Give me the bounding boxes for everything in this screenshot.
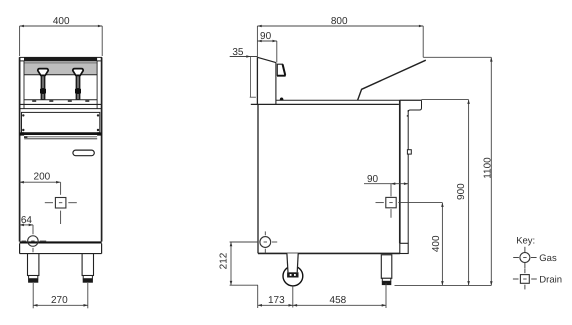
svg-text:1100: 1100 xyxy=(483,157,494,179)
svg-text:Gas: Gas xyxy=(539,253,557,264)
svg-text:270: 270 xyxy=(51,295,68,306)
svg-text:200: 200 xyxy=(34,172,51,183)
svg-text:90: 90 xyxy=(260,31,272,42)
svg-text:800: 800 xyxy=(331,16,348,27)
svg-text:173: 173 xyxy=(268,295,285,306)
svg-text:Drain: Drain xyxy=(539,274,562,285)
svg-text:900: 900 xyxy=(456,183,467,200)
svg-text:64: 64 xyxy=(21,215,33,226)
svg-text:400: 400 xyxy=(431,235,442,252)
svg-text:90: 90 xyxy=(367,174,379,185)
svg-text:458: 458 xyxy=(330,295,347,306)
svg-text:400: 400 xyxy=(53,16,70,27)
svg-text:Key:: Key: xyxy=(516,236,535,247)
svg-text:212: 212 xyxy=(218,252,229,269)
